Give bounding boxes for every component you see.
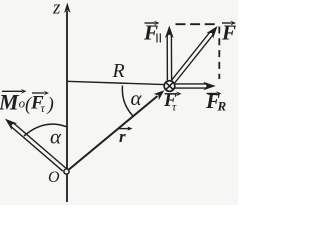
svg-text:): ) — [47, 94, 54, 115]
z axis — [64, 3, 70, 203]
svg-text:τ: τ — [172, 100, 177, 114]
label F_parallel with over-arrow — [143, 21, 160, 45]
origin O, small open circle — [64, 169, 69, 174]
label F with over-arrow — [221, 21, 236, 45]
svg-text:r: r — [119, 127, 126, 146]
svg-text:O: O — [48, 169, 60, 186]
svg-text:α: α — [131, 86, 143, 110]
svg-text:z: z — [52, 0, 61, 19]
dashed projection lines — [176, 23, 220, 25]
label F_R with over-arrow — [205, 89, 227, 114]
svg-text:R: R — [217, 99, 227, 114]
vector r from O to force point — [67, 90, 165, 171]
vector M_O(F_tau), double line — [5, 119, 66, 172]
svg-text:M: M — [0, 90, 20, 115]
svg-text:R: R — [112, 60, 125, 82]
vector F, double line diagonal — [171, 26, 217, 83]
force application point, circle with cross (F_tau into page) — [164, 81, 175, 92]
vector F_parallel, double line up — [165, 26, 174, 81]
line R from z-axis to point — [67, 81, 164, 84]
svg-text:τ: τ — [41, 101, 46, 115]
angle alpha arc at origin — [24, 124, 67, 136]
label r with over-arrow — [119, 126, 133, 146]
label M_O(F_tau) with over-arrow — [0, 89, 54, 115]
svg-text:α: α — [50, 125, 62, 149]
angle alpha arc at force point — [122, 86, 132, 116]
label F_tau with over-arrow — [163, 90, 182, 114]
vector F_R, double line right — [175, 82, 216, 91]
svg-text:F: F — [221, 21, 236, 45]
